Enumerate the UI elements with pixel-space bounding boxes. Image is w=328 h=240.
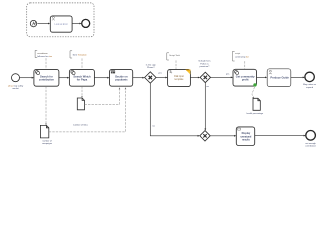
user task Display unnatural results bbox=[236, 127, 254, 146]
wire sub task to end bbox=[72, 23, 80, 25]
svg-text:severferen: severferen bbox=[37, 52, 48, 55]
data association docB to task3 bbox=[49, 88, 126, 131]
sub end event bbox=[82, 19, 90, 27]
wire start to task1 bbox=[20, 77, 33, 79]
user task Produce Guide bbox=[267, 69, 291, 87]
svg-text:Is the sign: Is the sign bbox=[146, 63, 157, 66]
wire gateway1 to task4 bbox=[156, 77, 166, 79]
svg-text:Schade hers: Schade hers bbox=[198, 60, 211, 63]
end event 2 bbox=[306, 131, 316, 141]
svg-text:profit: profit bbox=[242, 77, 249, 81]
data object C bbox=[253, 98, 260, 110]
svg-text:results: results bbox=[242, 138, 251, 141]
svg-text:premium?: premium? bbox=[200, 65, 211, 68]
annotation 4 bbox=[233, 51, 235, 61]
main start event bbox=[12, 74, 20, 82]
association annotation1-task1 bbox=[45, 58, 47, 69]
exclusive gateway 1 bbox=[145, 72, 156, 83]
svg-text:Phone?: Phone? bbox=[147, 67, 155, 69]
gateway2 no branch down bbox=[204, 83, 206, 130]
svg-text:attract top safety: attract top safety bbox=[8, 84, 24, 87]
script task with warning bbox=[168, 69, 191, 86]
wire task7 to end2 bbox=[255, 135, 305, 137]
error start event bbox=[30, 20, 36, 26]
service task Get community profit bbox=[233, 69, 257, 86]
svg-text:populants: populants bbox=[115, 77, 128, 81]
svg-text:expand: expand bbox=[306, 87, 314, 89]
wire task5 to task6 bbox=[257, 76, 266, 78]
data object A bbox=[77, 98, 84, 110]
data association task5 to docC bbox=[252, 87, 255, 98]
annotation 2 bbox=[70, 51, 72, 58]
wire task4 to gateway2 bbox=[190, 77, 198, 79]
association annotation3-task4 bbox=[175, 60, 177, 69]
wire gateway2 to task5 bbox=[211, 76, 232, 78]
svg-text:Script Task: Script Task bbox=[169, 54, 181, 57]
svg-text:script: script bbox=[235, 52, 241, 55]
data object B bbox=[40, 125, 48, 138]
svg-text:market: market bbox=[12, 87, 19, 90]
svg-text:Look at Error: Look at Error bbox=[55, 23, 69, 26]
svg-text:number of links: number of links bbox=[73, 124, 89, 127]
svg-text:community list: community list bbox=[235, 56, 249, 59]
annotation 3 bbox=[167, 53, 169, 60]
svg-text:Polton is: Polton is bbox=[200, 62, 209, 65]
warning corner bbox=[185, 70, 190, 75]
svg-text:template: template bbox=[175, 78, 185, 81]
svg-text:contribution: contribution bbox=[39, 77, 55, 81]
svg-text:for Papa: for Papa bbox=[77, 77, 88, 81]
script icon bbox=[170, 71, 173, 73]
svg-text:Produce Guide: Produce Guide bbox=[270, 76, 289, 80]
green marker bbox=[253, 83, 256, 86]
svg-text:Dial input: Dial input bbox=[174, 75, 184, 78]
svg-text:contribution: contribution bbox=[305, 144, 317, 147]
svg-text:health percentage: health percentage bbox=[246, 112, 263, 115]
association annotation4-task5 bbox=[244, 61, 246, 69]
association annotation2-task2 bbox=[81, 58, 83, 69]
svg-text:campaigns: campaigns bbox=[42, 143, 52, 145]
data association task2 to docA bbox=[81, 86, 83, 97]
data association task1 to docB bbox=[45, 86, 47, 124]
gateway1 no branch bbox=[150, 83, 198, 136]
wire task3 to gateway1 bbox=[133, 77, 144, 79]
wire start to sub task bbox=[37, 23, 48, 25]
exclusive gateway 3 bbox=[200, 131, 210, 141]
wire task1 to task2 bbox=[59, 77, 68, 79]
svg-text:number of: number of bbox=[42, 139, 52, 142]
wire task2 to task3 bbox=[94, 77, 108, 79]
svg-text:Sent Template: Sent Template bbox=[73, 53, 88, 56]
service task Search for contribution bbox=[34, 69, 59, 86]
wire task6 to end1 bbox=[291, 76, 304, 78]
end event 1 bbox=[305, 72, 314, 81]
svg-text:May native as: May native as bbox=[303, 83, 316, 86]
service task Search Which for Papa bbox=[69, 69, 94, 86]
svg-text:folksma fea tax: folksma fea tax bbox=[37, 55, 53, 58]
wire gateway3 to task7 bbox=[210, 135, 235, 137]
exclusive gateway 2 bbox=[200, 72, 210, 82]
svg-text:not enough: not enough bbox=[305, 142, 316, 145]
data association docA to task3 bbox=[85, 88, 120, 104]
business rule task Decide on populants bbox=[110, 69, 133, 86]
event subprocess container bbox=[27, 3, 94, 37]
annotation 1 bbox=[35, 50, 37, 57]
user task Look at Error bbox=[50, 16, 72, 32]
